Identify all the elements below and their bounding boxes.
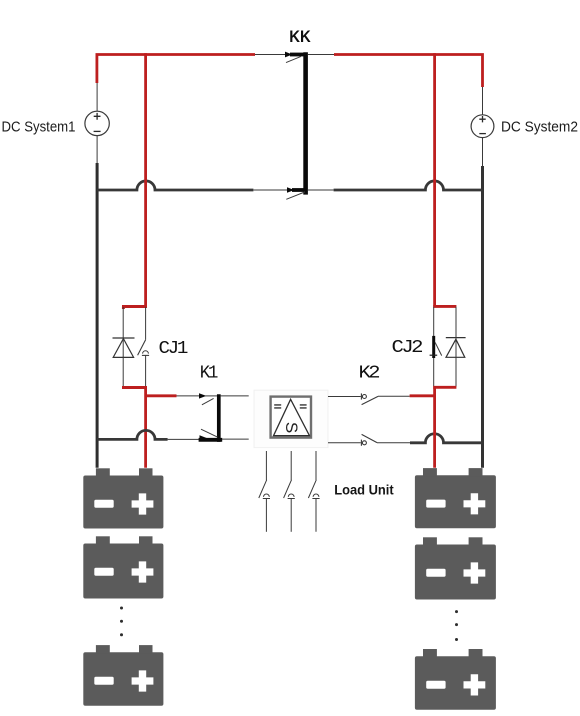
phase line 1 blade (259, 480, 267, 498)
wire left outer trunk (96, 163, 99, 468)
dc source DC System1 plus (94, 113, 101, 120)
wire thin below DC System1 (96, 136, 98, 163)
breaker K1 bottom thick pad (199, 438, 223, 442)
contact CJ2 ghost diagonal (435, 342, 442, 355)
contact CJ2 tick (430, 354, 438, 356)
contact CJ2 closed blade thick (432, 336, 435, 358)
wire CJ2 right leg (455, 307, 457, 387)
contact CJ2 lower lead (433, 358, 435, 387)
diode CJ1 triangle (113, 339, 133, 358)
phase line 3 upper (315, 451, 317, 480)
wire thin K2 bottom right (377, 442, 410, 444)
wire thin K1 top right (221, 395, 249, 397)
inverter surround panel (254, 390, 328, 447)
battery GB4 right row1 (415, 468, 496, 528)
svg-text:CJ1: CJ1 (159, 339, 188, 359)
breaker KK vertical bar (303, 52, 308, 194)
wire thin from KK bottom to right (308, 189, 334, 191)
breaker KK top diagonal tick (286, 56, 301, 62)
ellipsis dots right (455, 610, 458, 641)
wire thin arrow to K1 bar (205, 395, 217, 397)
wire second bus right segment with hump (334, 181, 483, 190)
phase line 3 blade (308, 480, 316, 498)
phase line 1 lower (265, 499, 267, 532)
diode CJ2 cathode bar (446, 337, 466, 339)
wire CJ2 bottom red jog (433, 386, 456, 389)
wire CJ1 top red jog (122, 307, 147, 310)
wire thin to K1 top (177, 395, 200, 397)
dc source DC System1 circle (85, 111, 109, 135)
diode CJ2 triangle (446, 339, 465, 357)
wire thin K2 top right (378, 395, 410, 397)
wire right red trunk lower (433, 387, 436, 468)
inverter U1 equals left (274, 405, 281, 408)
breaker K1 top arrow (199, 393, 206, 398)
phase line 1 dome contact (263, 494, 270, 499)
ellipsis dots left (120, 607, 123, 637)
wire thin above DC System1 (96, 83, 98, 111)
breaker KK bottom arrow (287, 187, 294, 193)
phase line 2 blade (284, 480, 292, 498)
diode CJ1 cathode bar (113, 337, 135, 339)
svg-text:DC System2: DC System2 (501, 119, 578, 135)
dc source DC System2 minus (479, 133, 486, 135)
wire thin lead into KK top (255, 54, 286, 56)
battery GB1 left row1 (83, 468, 163, 528)
dc source DC System2 circle (471, 115, 494, 138)
svg-text:CJ2: CJ2 (392, 338, 423, 358)
breaker K1 bottom arrow (200, 435, 207, 440)
svg-text:Load Unit: Load Unit (334, 483, 394, 498)
contact CJ1 tick (142, 354, 149, 356)
breaker K1 top diagonal tick (202, 398, 214, 404)
battery GB5 right row2 (415, 537, 496, 599)
breaker K1 bottom diagonal tick (201, 429, 218, 437)
battery GB2 left row2 (83, 536, 163, 598)
svg-text:DC System1: DC System1 (2, 119, 76, 135)
wire CJ1 left leg (122, 307, 124, 387)
wire thin lead into KK bottom (253, 189, 287, 191)
breaker KK bottom diagonal tick (286, 192, 305, 199)
svg-text:S: S (282, 422, 301, 433)
wire left red trunk lower (144, 388, 147, 468)
contact CJ1 dome (143, 351, 149, 354)
wire thin bus3 to K1 bottom (168, 438, 200, 440)
wire CJ1 bottom red jog (122, 386, 147, 389)
phase line 3 lower (315, 499, 317, 532)
contact K2 top blade (362, 396, 378, 404)
phase line 3 dome contact (312, 494, 319, 498)
wire red top bus left segment with left drop (97, 55, 255, 84)
wire thin below DC System2 (482, 138, 484, 166)
phase line 2 dome contact (288, 494, 295, 499)
contact K2 bottom tick and circle (360, 440, 362, 446)
svg-text:K2: K2 (359, 363, 380, 383)
contact K2 top tick and circle (360, 393, 362, 399)
wire thin K1 bottom right (222, 438, 249, 440)
phase line 2 lower (290, 499, 292, 532)
svg-text:KK: KK (289, 27, 311, 46)
dc source DC System2 plus (479, 116, 485, 122)
phase line 2 upper (290, 451, 292, 480)
inverter U1 triangle (274, 399, 310, 435)
wire thin from KK top to right red bus (308, 54, 334, 56)
breaker K1 vertical bar (217, 394, 221, 442)
wire third bus left with hump (97, 430, 168, 439)
wire second bus left segment with hump (97, 181, 253, 190)
wire thin above DC System2 (482, 87, 484, 115)
contact K2 bottom blade (362, 434, 377, 442)
wire left red trunk upper (144, 53, 147, 307)
contact CJ1 blade (138, 340, 146, 356)
wire right red trunk upper (433, 53, 436, 307)
breaker KK bottom thick stub (292, 188, 304, 192)
wire thin box right top (328, 396, 361, 398)
wire third bus right dark with hump (410, 434, 483, 443)
battery GB6 right row3 (415, 649, 496, 710)
wire red tee to K1 (146, 394, 177, 397)
svg-text:K1: K1 (200, 364, 218, 384)
contact CJ1 upper lead (145, 307, 147, 340)
inverter U1 box (271, 397, 311, 438)
inverter U1 equals right (300, 405, 307, 408)
contact CJ2 upper lead (433, 307, 435, 336)
breaker KK top thick stub (290, 53, 304, 57)
dc source DC System1 minus (94, 130, 101, 132)
wire red top bus right segment with right drop (334, 55, 483, 88)
wire CJ2 top red jog (433, 305, 456, 308)
contact CJ1 lower lead (145, 355, 147, 387)
breaker KK top arrow (285, 52, 292, 58)
wire right outer trunk (481, 166, 484, 468)
wire thin box right bottom (328, 442, 361, 444)
wire red tee from K2 to right trunk (410, 394, 435, 397)
battery GB3 left row3 (83, 645, 163, 706)
phase line 1 upper (265, 451, 267, 480)
